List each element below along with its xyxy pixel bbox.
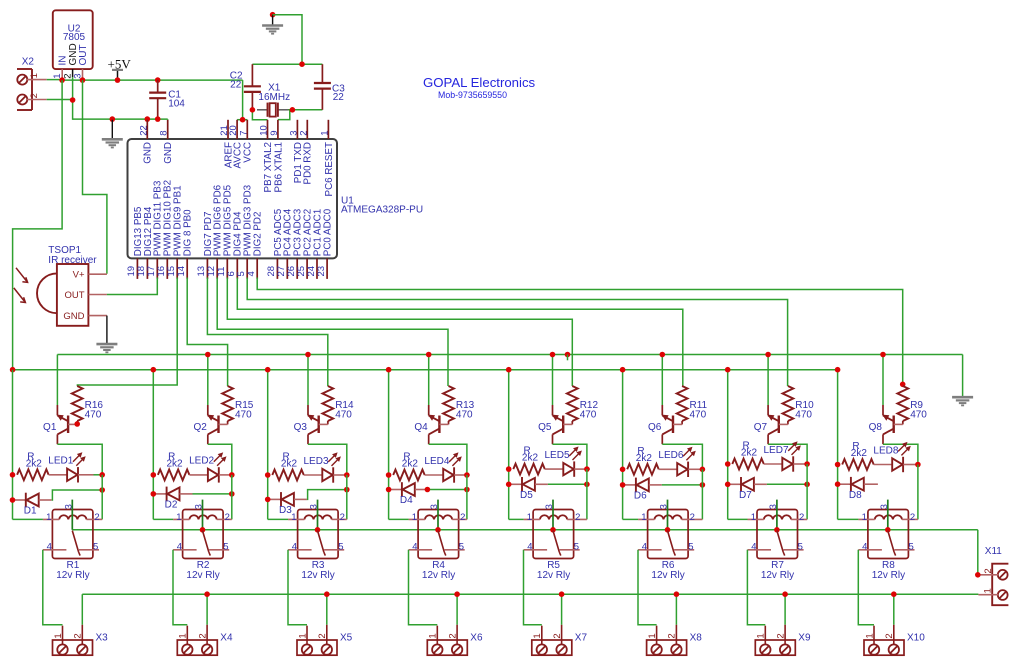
junction (200, 527, 206, 533)
pin GND of U2 (72, 69, 74, 77)
wire collector to LED column (553, 444, 587, 469)
svg-text:470: 470 (335, 410, 352, 421)
capacitor C3 (321, 64, 323, 83)
pin 1 of X7 (541, 626, 543, 645)
svg-text:12v Rly: 12v Rly (537, 570, 570, 581)
pin 28 of U1 (PC5 ADC5) (276, 258, 278, 279)
svg-text:12v Rly: 12v Rly (872, 570, 905, 581)
svg-text:Q7: Q7 (754, 422, 768, 433)
junction (915, 462, 921, 468)
pin 5 of relay R3 (324, 549, 344, 551)
svg-text:7805: 7805 (63, 32, 86, 43)
pin 4 of relay R4 (409, 549, 433, 551)
svg-text:2k2: 2k2 (26, 458, 43, 469)
wire channel rail (12, 370, 14, 520)
pin 10 of U1 (PB7 XTAL2) (267, 120, 269, 139)
pin 1 of relay R3 (288, 518, 304, 520)
svg-text:1: 1 (412, 512, 417, 523)
svg-text:X6: X6 (470, 633, 483, 644)
pin 1 of X6 (436, 626, 438, 645)
resistor R14 470 (322, 386, 333, 421)
wire collector to LED column (429, 444, 467, 475)
junction (435, 527, 441, 533)
wire LED to column (347, 474, 349, 476)
pin 2 of relay R4 (452, 518, 467, 520)
junction (700, 467, 706, 473)
svg-text:470: 470 (910, 410, 927, 421)
svg-text:D8: D8 (849, 490, 862, 501)
wire relay common bus (72, 529, 978, 531)
svg-text:PC6 RESET: PC6 RESET (324, 142, 335, 196)
svg-text:GND: GND (163, 142, 174, 164)
pin 1 of X10 (873, 626, 875, 645)
pin 2 of X2 (27, 99, 47, 101)
svg-text:X5: X5 (340, 633, 353, 644)
junction (835, 481, 841, 487)
LED LED2 (208, 469, 218, 481)
pin IN of U2 (61, 69, 63, 80)
connector X4 (177, 640, 217, 655)
connector X10 (864, 640, 904, 655)
wire control net (207, 278, 327, 387)
relay R6 12v Rly (648, 510, 689, 559)
capacitor C1 (157, 80, 159, 93)
wire GND net left (72, 77, 74, 120)
pin 2 of X11 (978, 574, 998, 576)
wire diode jog (52, 490, 102, 500)
wire 12V bus (13, 369, 838, 371)
pin 1 of relay R7 (748, 518, 764, 520)
wire connector pin2 to bus (456, 594, 458, 625)
svg-text:DIG2 PD2: DIG2 PD2 (253, 212, 264, 257)
pin 24 of U1 (PC1 ADC1) (316, 258, 318, 279)
svg-text:D7: D7 (739, 490, 752, 501)
wire channel rail (388, 370, 390, 520)
junction (880, 352, 886, 358)
wire relay pin4 to connector (173, 550, 187, 625)
svg-text:4: 4 (862, 542, 867, 553)
connector X2 (17, 68, 32, 70)
junction (299, 61, 305, 67)
junction (386, 487, 392, 493)
resistor R6 2k2 (627, 464, 659, 475)
junction (151, 491, 157, 497)
pin 1 of X9 (764, 626, 766, 645)
wire relay pin1 feed (153, 518, 173, 520)
pin 2 of X10 (893, 625, 895, 645)
wire diode to column (193, 493, 232, 495)
pin 5 of U1 (PWM DIG3 PD3) (246, 258, 248, 279)
ground (962, 355, 964, 397)
junction (674, 591, 680, 597)
pin 2 of relay R5 (567, 518, 587, 520)
resistor R7 2k2 (732, 459, 764, 470)
svg-text:2: 2 (94, 512, 99, 523)
svg-text:2: 2 (983, 568, 994, 573)
junction (506, 466, 512, 472)
svg-text:DIG 8 PB0: DIG 8 PB0 (183, 209, 194, 256)
svg-text:4: 4 (527, 542, 532, 553)
wire relay pin4 to connector (747, 550, 765, 625)
wire output common bus (82, 593, 978, 595)
svg-text:2k2: 2k2 (636, 453, 653, 464)
diode D7 (728, 483, 741, 485)
wire connector pin2 to bus (326, 594, 328, 625)
svg-text:2k2: 2k2 (402, 459, 419, 470)
junction (975, 572, 981, 578)
wire emitter to ground bus (56, 355, 58, 406)
wire relay pin1 feed (728, 518, 748, 520)
pin 23 of U1 (PC0 ADC0) (326, 258, 328, 279)
wire LED to column (94, 474, 103, 476)
svg-text:D3: D3 (279, 505, 292, 516)
wire relay pin4 to connector (524, 550, 542, 625)
pin 9 of U1 (PB6 XTAL1) (277, 120, 279, 139)
relay switch lever (777, 531, 783, 552)
svg-text:X10: X10 (907, 633, 925, 644)
pin 4 of relay R1 (43, 549, 67, 551)
junction (386, 367, 392, 373)
pin 1 of X3 (62, 626, 64, 645)
svg-text:1: 1 (862, 512, 867, 523)
pin 2 of X9 (784, 625, 786, 645)
wire connector pin2 to bus (561, 594, 563, 625)
transistor Q7 (767, 405, 769, 415)
svg-text:14: 14 (176, 266, 187, 277)
wire diode to column (428, 489, 467, 491)
svg-text:10: 10 (259, 125, 270, 136)
junction (99, 472, 105, 478)
junction (70, 97, 76, 103)
wire control net (247, 278, 787, 387)
svg-text:5: 5 (338, 542, 343, 553)
junction (426, 352, 432, 358)
wire column to relay (806, 464, 808, 519)
junction (559, 591, 565, 597)
svg-text:2k2: 2k2 (741, 448, 758, 459)
pin 4 of relay R6 (638, 549, 662, 551)
pin 5 of relay R1 (79, 549, 99, 551)
wire relay pin1 feed (389, 518, 409, 520)
resistor R12 470 (567, 386, 578, 421)
svg-text:1: 1 (751, 512, 756, 523)
relay R8 12v Rly (868, 510, 909, 559)
junction (454, 591, 460, 597)
svg-text:2: 2 (29, 93, 40, 98)
svg-text:2: 2 (460, 512, 465, 523)
junction (765, 352, 771, 358)
svg-text:OUT: OUT (78, 44, 89, 65)
junction (10, 497, 16, 503)
svg-text:2k2: 2k2 (167, 459, 184, 470)
wire relay common (887, 500, 889, 530)
svg-text:1: 1 (756, 633, 767, 638)
pin 2 of U1 (PD0 RXD) (306, 120, 308, 139)
resistor R9 470 (897, 386, 908, 421)
wire column to relay (101, 475, 103, 520)
pin 2 of relay R2 (217, 518, 232, 520)
junction (265, 497, 271, 503)
svg-text:470: 470 (235, 410, 252, 421)
junction (265, 367, 271, 373)
wire channel rail (508, 370, 510, 520)
wire relay pin4 to connector (288, 550, 307, 625)
pin 1 of relay R4 (409, 518, 425, 520)
wire connector pin2 to bus (893, 594, 895, 625)
diode D5 (509, 483, 522, 485)
junction (80, 77, 86, 83)
svg-text:PD0 RXD: PD0 RXD (303, 142, 314, 184)
svg-text:1: 1 (176, 512, 181, 523)
pin 1 of relay R8 (858, 518, 874, 520)
pin 1 of relay R2 (173, 518, 189, 520)
relay switch lever (438, 531, 444, 552)
wire relay pin1 feed (509, 518, 524, 520)
resistor R15 470 (222, 386, 233, 421)
svg-text:104: 104 (168, 99, 185, 110)
junction (59, 77, 65, 83)
svg-text:5: 5 (223, 542, 228, 553)
svg-text:PB7 XTAL2: PB7 XTAL2 (263, 142, 274, 192)
junction (665, 527, 671, 533)
junction (464, 472, 470, 478)
connector X7 (532, 640, 572, 655)
wire XTAL2 net (252, 110, 267, 120)
svg-text:2: 2 (340, 512, 345, 523)
resistor R10 470 (783, 386, 794, 421)
wire emitter drop (882, 355, 884, 406)
pin 2 of X4 (206, 625, 208, 645)
svg-text:Q5: Q5 (538, 422, 552, 433)
wire diode to column (662, 484, 703, 486)
wire relay common (202, 500, 204, 530)
svg-text:22: 22 (138, 125, 149, 136)
transistor Q1 (56, 405, 58, 415)
svg-text:4: 4 (642, 542, 647, 553)
pin 26 of U1 (PC3 ADC3) (296, 258, 298, 279)
pin 1 of X2 (27, 79, 47, 81)
pin 1 of relay R1 (43, 518, 59, 520)
wire channel rail (622, 370, 624, 520)
relay R2 12v Rly (183, 510, 224, 559)
pin 18 of U1 (DIG12 PB4) (146, 258, 148, 279)
svg-text:16MHz: 16MHz (258, 92, 290, 103)
wire connector pin2 to bus (675, 594, 677, 625)
transistor Q5 (552, 405, 554, 415)
pin 16 of U1 (PWM DIG10 PB2) (166, 258, 168, 279)
crystal X1 (257, 109, 267, 111)
junction (835, 367, 841, 373)
junction (155, 77, 161, 83)
pin 2 of X3 (81, 625, 83, 645)
resistor R4 2k2 (393, 470, 425, 481)
svg-text:12v Rly: 12v Rly (301, 570, 334, 581)
pin 7 of U1 (VCC) (246, 120, 248, 139)
pin 4 of relay R3 (288, 549, 312, 551)
pin 1 of X4 (186, 626, 188, 645)
pin 20 of U1 (AVCC) (236, 120, 238, 139)
ground (111, 120, 113, 140)
LED LED6 (677, 463, 687, 475)
svg-text:4: 4 (47, 542, 52, 553)
svg-text:1: 1 (53, 633, 64, 638)
junction (151, 367, 157, 373)
wire relay common (437, 500, 439, 530)
junction (725, 461, 731, 467)
svg-text:X11: X11 (985, 546, 1002, 557)
svg-text:Q2: Q2 (193, 422, 207, 433)
resistor R5 2k2 (513, 464, 545, 475)
pin 1 of X8 (656, 626, 658, 645)
wire diode jog (307, 490, 347, 500)
junction (584, 466, 590, 472)
junction (620, 367, 626, 373)
junction (700, 482, 706, 488)
wire AVCC jumper (237, 119, 247, 121)
wire LED to column (807, 463, 809, 465)
svg-text:LED5: LED5 (545, 450, 570, 461)
wire relay pin1 feed (623, 518, 639, 520)
svg-text:470: 470 (795, 410, 812, 421)
resistor R2 2k2 (158, 470, 190, 481)
wire collector to LED column (57, 444, 102, 475)
pin 11 of U1 (PWM DIG5 PD5) (226, 258, 228, 279)
LED LED1 (67, 469, 77, 481)
wire emitter drop (307, 355, 309, 406)
wire relay pin4 to connector (409, 550, 438, 625)
svg-text:9: 9 (269, 131, 280, 136)
svg-text:5: 5 (798, 542, 803, 553)
svg-text:1: 1 (291, 512, 296, 523)
junction (725, 482, 731, 488)
pin 25 of U1 (PC2 ADC2) (306, 258, 308, 279)
relay switch lever (72, 531, 78, 552)
svg-text:23: 23 (316, 266, 327, 277)
wire column to relay (701, 469, 703, 519)
wire relay pin1 feed (838, 518, 859, 520)
relay R1 12v Rly (52, 510, 93, 559)
pin 15 of U1 (PWM DIG9 PB1) (176, 258, 178, 279)
pin 5 of relay R7 (784, 549, 804, 551)
wire +5V to IR receiver (83, 80, 107, 274)
svg-text:X8: X8 (690, 633, 703, 644)
LED LED5 (563, 463, 573, 475)
transistor Q3 (307, 405, 309, 415)
svg-text:2: 2 (447, 633, 458, 638)
IR receiver TSOP1 (57, 264, 89, 326)
svg-text:5: 5 (93, 542, 98, 553)
resistor R16 470 (72, 386, 83, 421)
wire column to relay (231, 475, 233, 520)
pin 2 of relay R6 (682, 518, 703, 520)
svg-text:2: 2 (298, 131, 309, 136)
junction (155, 116, 161, 122)
relay switch lever (203, 531, 209, 552)
pin 4 of relay R7 (748, 549, 772, 551)
junction (725, 367, 731, 373)
relay R7 12v Rly (757, 510, 798, 559)
pin 17 of U1 (PWM DIG11 PB3) (156, 258, 158, 279)
wire column to relay (466, 475, 468, 519)
wire LED to column (917, 464, 920, 466)
connector X6 (427, 640, 467, 655)
svg-text:1: 1 (319, 131, 330, 136)
ground (270, 12, 276, 18)
resistor R13 470 (443, 386, 454, 421)
junction (74, 421, 80, 427)
svg-text:2: 2 (799, 512, 804, 523)
svg-text:2k2: 2k2 (281, 459, 298, 470)
junction (344, 487, 350, 493)
svg-text:2: 2 (667, 633, 678, 638)
pin 5 of relay R5 (560, 549, 580, 551)
pin 4 of relay R8 (858, 549, 882, 551)
wire emitter drop (428, 355, 430, 406)
junction (305, 352, 311, 358)
wire relay pin1 feed (268, 518, 288, 520)
pin 2 of relay R7 (791, 518, 807, 520)
junction (110, 116, 116, 122)
svg-text:Mob-9735659550: Mob-9735659550 (438, 90, 507, 100)
svg-text:2: 2 (775, 633, 786, 638)
pin 2 of X5 (326, 625, 328, 645)
junction (506, 367, 512, 373)
wire ground bus (57, 354, 962, 356)
wire relay pin4 to connector (638, 550, 657, 625)
wire VCC drop (242, 80, 244, 120)
svg-text:12v Rly: 12v Rly (761, 570, 794, 581)
wire control net (227, 278, 572, 387)
svg-text:D2: D2 (165, 500, 178, 511)
diode D4 (389, 489, 402, 491)
wire control net (257, 278, 903, 387)
wire collector to LED column (883, 444, 918, 464)
svg-text:7: 7 (238, 131, 249, 136)
junction (835, 462, 841, 468)
connector X11 (992, 564, 1008, 606)
connector X3 (53, 640, 93, 655)
svg-text:2: 2 (225, 512, 230, 523)
junction (782, 591, 788, 597)
wire channel rail (152, 370, 154, 520)
junction (229, 472, 235, 478)
pin 1 of relay R6 (638, 518, 654, 520)
svg-text:VCC: VCC (243, 142, 254, 163)
relay R5 12v Rly (533, 510, 574, 559)
svg-text:22: 22 (333, 92, 345, 103)
svg-text:Q6: Q6 (648, 422, 662, 433)
pin 19 of U1 (DIG13 PB5) (136, 258, 138, 279)
junction (265, 472, 271, 478)
junction (900, 382, 906, 388)
relay switch lever (668, 531, 674, 552)
wire XTAL1 net (288, 109, 322, 111)
svg-text:OUT: OUT (64, 290, 84, 301)
svg-text:2: 2 (73, 633, 84, 638)
wire +5V rail (47, 79, 62, 81)
wire collector to LED column (308, 444, 347, 475)
junction (290, 107, 296, 113)
junction (315, 527, 321, 533)
junction (550, 352, 556, 358)
wire connector pin2 to bus (206, 594, 208, 625)
svg-text:2: 2 (884, 633, 895, 638)
transistor Q4 (428, 405, 430, 415)
connector X9 (755, 640, 795, 655)
wire control net (237, 278, 683, 387)
wire relay pin4 to connector (43, 550, 63, 625)
svg-text:5: 5 (574, 542, 579, 553)
